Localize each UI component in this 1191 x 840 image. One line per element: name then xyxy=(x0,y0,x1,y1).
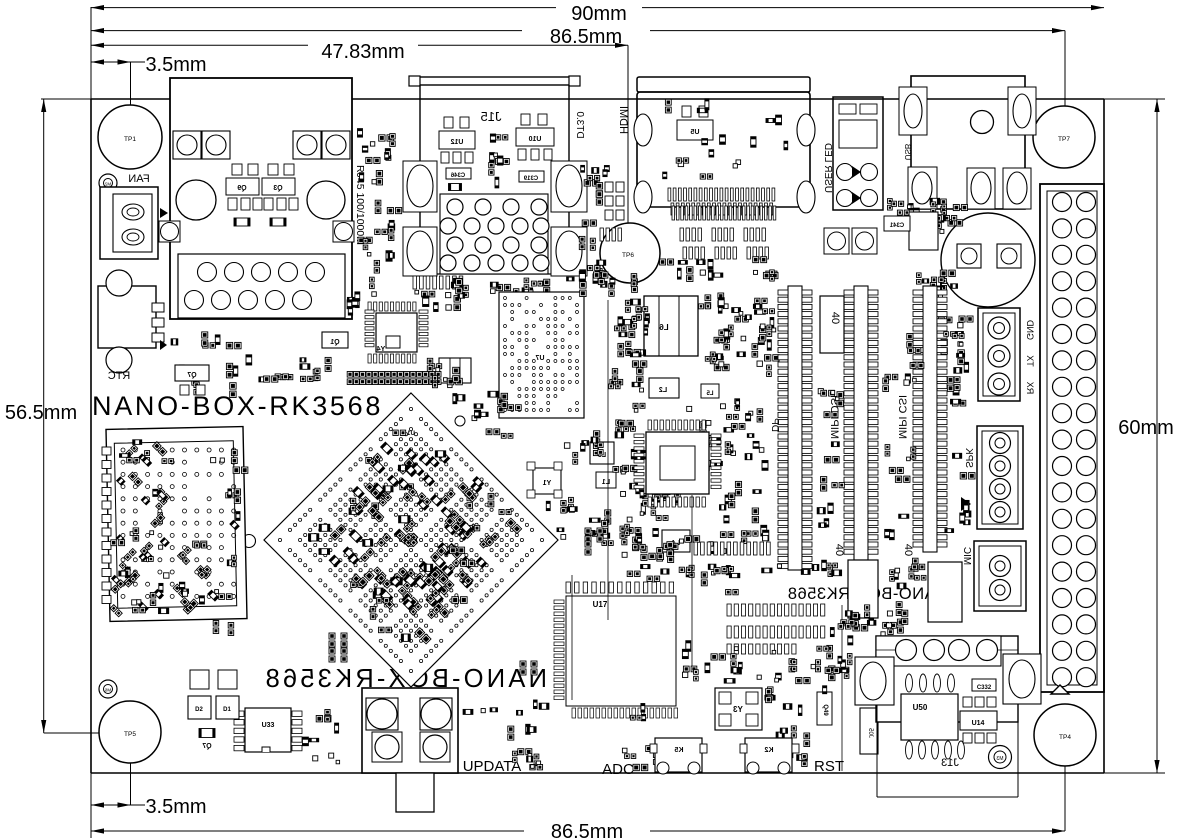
svg-text:C319: C319 xyxy=(523,176,538,182)
svg-text:40: 40 xyxy=(833,544,845,556)
SMD parts below QFN U11 xyxy=(633,536,700,563)
SMD parts below L6 left xyxy=(609,361,647,474)
SMD parts above ADC xyxy=(513,749,543,770)
SMD parts below TP6 xyxy=(567,270,638,297)
SMD parts above U7 left xyxy=(453,391,521,438)
module components left xyxy=(110,472,170,617)
via circle left of BGA xyxy=(243,535,256,548)
SMD parts in HDMI xyxy=(663,99,788,179)
SMD parts left of L4 xyxy=(620,524,658,557)
svg-text:ADC: ADC xyxy=(602,761,634,778)
connector MIPI DSI 40pin xyxy=(778,286,812,570)
inductor L1 xyxy=(596,472,616,488)
J13 pad right xyxy=(1003,654,1041,704)
silkscreen NANO-BOX-RK3568 mirrored small xyxy=(787,585,948,603)
svg-text:SPK: SPK xyxy=(963,448,974,468)
diode D1 xyxy=(216,670,239,719)
SMD parts left of J13 2 xyxy=(823,624,853,694)
SMD parts below capacitor C1 xyxy=(917,270,958,298)
svg-text:K2: K2 xyxy=(764,747,773,754)
module U6 outline xyxy=(106,427,247,622)
J13 oval pads bottom xyxy=(906,741,965,759)
svg-text:RTC: RTC xyxy=(108,370,130,382)
svg-text:USB: USB xyxy=(903,144,912,160)
inductor near Y4 xyxy=(439,358,471,383)
connector RJ45 xyxy=(159,78,354,319)
connector RTC xyxy=(98,270,167,382)
wire K2 down xyxy=(841,605,843,771)
svg-text:C346: C346 xyxy=(450,173,465,179)
pads below module xyxy=(213,621,391,636)
connector UPDATA USB OTG xyxy=(362,688,458,812)
IC U37 xyxy=(928,562,962,622)
dimension 86.5mm top xyxy=(91,26,1065,137)
IC U33 xyxy=(234,708,302,752)
module via grid xyxy=(121,448,236,598)
QFN Y4 wifi xyxy=(365,302,428,363)
svg-text:FAN: FAN xyxy=(128,173,149,185)
SMD parts above U17 xyxy=(546,497,613,545)
transistor Q7 bottom xyxy=(199,729,215,751)
SMD parts left of HDMI xyxy=(579,165,609,287)
IC U10 xyxy=(516,114,554,160)
inductor L5 xyxy=(701,384,719,398)
svg-text:J15: J15 xyxy=(481,109,502,124)
SMD pads cluster right of J15 xyxy=(605,182,624,220)
svg-text:K5: K5 xyxy=(674,747,683,754)
IC U50 xyxy=(901,694,958,740)
dimension 3.5mm bottom xyxy=(91,733,207,838)
SMD parts right of LCD conn xyxy=(944,323,969,406)
QFN U11 xyxy=(634,420,721,507)
board outline xyxy=(91,99,1104,773)
test point TP5 xyxy=(99,701,161,763)
svg-text:C341: C341 xyxy=(889,223,904,229)
SMD parts left of Y4 xyxy=(347,292,360,315)
svg-text:MIC: MIC xyxy=(961,547,972,565)
svg-text:Y3: Y3 xyxy=(733,705,743,714)
module components right xyxy=(226,467,248,530)
dimension 56.5mm left xyxy=(5,99,130,733)
button K2 xyxy=(740,738,799,774)
svg-text:Q9: Q9 xyxy=(237,185,246,192)
svg-text:U12: U12 xyxy=(450,139,463,146)
svg-text:U5: U5 xyxy=(690,129,699,136)
connector HDMI xyxy=(617,77,815,213)
svg-text:U17: U17 xyxy=(593,600,608,609)
svg-text:L5: L5 xyxy=(706,391,714,397)
SMD parts mid column low xyxy=(709,481,769,553)
svg-text:RST: RST xyxy=(814,758,844,775)
svg-text:U1: U1 xyxy=(407,431,415,437)
svg-text:3.5mm: 3.5mm xyxy=(145,54,206,76)
SMD parts right of band xyxy=(427,358,462,387)
RJ45 pin holes xyxy=(185,263,325,310)
connector SPK xyxy=(961,426,1023,529)
SMD parts left of J13 xyxy=(841,611,876,631)
svg-text:Y1: Y1 xyxy=(543,480,552,487)
dimension 90mm xyxy=(91,3,1104,25)
connector debug UART xyxy=(978,308,1020,401)
svg-text:90mm: 90mm xyxy=(571,3,627,25)
transistor Q1 xyxy=(322,332,348,348)
SMD parts mid column xyxy=(687,399,768,471)
wire horizontal xyxy=(607,300,609,620)
dimension 60mm right xyxy=(1104,99,1174,773)
eMMC pad ladder xyxy=(727,604,825,654)
test point TP6 xyxy=(600,223,660,283)
components on BGA xyxy=(309,430,522,644)
resistor arrays row 2 xyxy=(600,228,768,259)
svg-text:C332: C332 xyxy=(977,685,992,691)
transistor Q9 xyxy=(226,164,262,210)
SMD parts between MIPI 2 xyxy=(883,334,924,540)
pad quad right of U17 xyxy=(520,661,537,675)
svg-text:TP1: TP1 xyxy=(124,136,136,143)
svg-text:60mm: 60mm xyxy=(1118,417,1174,439)
SMD parts below U36 xyxy=(865,602,908,642)
svg-text:U33: U33 xyxy=(262,722,275,729)
IC U17 QFP xyxy=(554,582,678,718)
svg-text:86.5mm: 86.5mm xyxy=(550,26,622,48)
test point TP1 xyxy=(98,105,162,169)
SMD parts below HDMI xyxy=(660,257,778,282)
transistor Q7 left xyxy=(175,365,209,395)
svg-text:47.83mm: 47.83mm xyxy=(321,41,404,63)
wire vertical mid xyxy=(691,495,693,672)
pin header holes xyxy=(1053,193,1096,687)
SMD parts left of L6 xyxy=(615,299,650,357)
diode D2 xyxy=(188,670,211,719)
capacitor C319 xyxy=(519,171,544,182)
screw hole M3 xyxy=(989,746,1012,769)
dimension 3.5mm top xyxy=(91,54,207,137)
SMD parts below RTC xyxy=(171,332,252,398)
SMD parts right of U17 xyxy=(682,641,698,681)
SMD parts below J15 xyxy=(490,278,549,302)
screw hole M2 xyxy=(99,174,117,192)
SMD parts left mid xyxy=(564,431,603,464)
via circle near BGA top right xyxy=(455,416,465,426)
J15 pin hole grid xyxy=(440,194,549,274)
svg-text:TP7: TP7 xyxy=(1058,136,1070,143)
button K5 xyxy=(650,738,707,774)
connector body J8 xyxy=(820,296,844,353)
svg-text:RX: RX xyxy=(1025,382,1035,395)
svg-text:U10: U10 xyxy=(528,136,541,143)
connector FAN xyxy=(100,173,168,259)
svg-text:HDMI: HDMI xyxy=(617,106,629,134)
svg-text:Y4: Y4 xyxy=(377,346,386,353)
svg-text:U50: U50 xyxy=(913,703,928,712)
svg-text:D2: D2 xyxy=(195,707,203,713)
HDMI pin row xyxy=(668,188,775,215)
module components bottom xyxy=(173,541,236,614)
svg-text:L6: L6 xyxy=(659,323,669,332)
inductor L2 xyxy=(649,378,679,398)
pad comb below J15 xyxy=(413,276,463,289)
pad clusters below diamond xyxy=(329,528,603,662)
SMD parts above capacitor C1 xyxy=(884,198,967,240)
SMD parts right of U33 xyxy=(302,710,339,764)
screw hole M6 xyxy=(99,680,117,698)
pin 1 marker triangle xyxy=(1051,685,1069,694)
capacitor C341 xyxy=(884,212,938,250)
SMD parts near ADC xyxy=(622,704,659,771)
SMD parts left of UART header xyxy=(939,316,973,395)
capacitor C332 xyxy=(972,679,996,691)
svg-text:40: 40 xyxy=(902,544,914,556)
IC U14 xyxy=(960,711,997,730)
transistor Q49 xyxy=(817,692,832,725)
J13 pad left xyxy=(855,657,894,705)
svg-text:M6: M6 xyxy=(104,688,111,693)
svg-text:GND: GND xyxy=(1025,320,1035,341)
capacitor C1 electrolytic xyxy=(941,213,1035,307)
IC U36 xyxy=(848,560,878,618)
svg-text:L2: L2 xyxy=(659,387,667,394)
pad comb right of L4 xyxy=(694,542,770,555)
svg-text:DP: DP xyxy=(769,418,780,432)
connector MIC xyxy=(961,541,1026,611)
SMD parts above Y4 xyxy=(415,278,468,311)
svg-text:Q7: Q7 xyxy=(202,743,211,750)
crystal Y1 xyxy=(527,462,562,498)
connector USB V2.0 xyxy=(899,76,1036,209)
silkscreen NANO-BOX-RK3568 mirrored bottom xyxy=(262,665,547,693)
svg-text:3.5mm: 3.5mm xyxy=(145,796,206,818)
svg-text:TP4: TP4 xyxy=(1059,734,1071,741)
svg-text:MIPI CSI: MIPI CSI xyxy=(896,395,908,439)
svg-text:L1: L1 xyxy=(602,479,610,486)
SMD parts right of UPDATA xyxy=(463,700,549,740)
svg-text:J05: J05 xyxy=(867,728,873,738)
pad squares below USER LED xyxy=(824,228,877,254)
svg-text:NANO-BOX-RK3568: NANO-BOX-RK3568 xyxy=(92,391,383,421)
module components top xyxy=(120,440,238,467)
SMD parts J15 center xyxy=(489,134,510,188)
test point TP4 xyxy=(1034,704,1096,766)
J15 mounting ovals xyxy=(403,161,587,276)
test point TP7 xyxy=(1033,106,1095,168)
SMD parts above QFN U11 xyxy=(621,483,689,522)
IC U38 xyxy=(936,580,958,594)
svg-text:Q3: Q3 xyxy=(273,185,282,192)
svg-text:J13: J13 xyxy=(941,757,959,769)
SMD parts right of U36 xyxy=(890,558,926,589)
connector J20 xyxy=(860,708,878,754)
inductor L4 xyxy=(662,530,690,552)
svg-text:Q7: Q7 xyxy=(187,372,196,379)
connector 2x20 pin header xyxy=(1040,184,1104,692)
connector MIPI CSI 40pin xyxy=(844,286,878,560)
SMD parts near eMMC xyxy=(701,564,740,595)
resistors below Q9 Q3 xyxy=(234,218,286,226)
svg-text:U7: U7 xyxy=(535,355,544,362)
svg-text:USER LED: USER LED xyxy=(822,143,833,193)
dimension 47.83mm xyxy=(91,41,628,253)
svg-text:TP5: TP5 xyxy=(124,731,136,738)
SMD parts right of L6 xyxy=(699,293,780,376)
svg-text:86.5mm: 86.5mm xyxy=(551,821,623,840)
svg-text:D1: D1 xyxy=(223,707,231,713)
SMD parts left band xyxy=(259,357,331,382)
IC U5 xyxy=(677,106,713,140)
svg-text:40: 40 xyxy=(829,312,841,324)
svg-text:Q1: Q1 xyxy=(330,339,339,346)
small squares right of U50 xyxy=(963,697,996,743)
SMD band above silkscreen text xyxy=(347,372,441,385)
wire from U17 xyxy=(571,575,573,700)
BGA ball grid xyxy=(278,407,543,672)
SMD parts right of LCD conn 2 xyxy=(945,453,975,532)
IC U12 xyxy=(439,117,475,163)
inductor L6 xyxy=(644,296,698,356)
capacitor C346 xyxy=(446,168,471,191)
svg-text:DT3.0: DT3.0 xyxy=(574,111,585,139)
svg-text:U14: U14 xyxy=(972,720,985,727)
transistor Q3 xyxy=(262,164,298,210)
SMD parts around K2 xyxy=(765,687,810,767)
IC U7 with via array xyxy=(499,292,584,418)
svg-text:M3: M3 xyxy=(996,756,1003,762)
connector USER LED xyxy=(822,97,883,210)
SMD parts above eMMC text xyxy=(762,560,842,576)
svg-text:Q49: Q49 xyxy=(822,704,828,716)
SMD parts above Y3 xyxy=(705,645,849,683)
connector J13 microSD xyxy=(876,636,1018,797)
dimension 86.5mm bottom xyxy=(91,735,1065,840)
dimension extension line left xyxy=(90,7,92,99)
connector J15 xyxy=(409,76,580,274)
svg-text:56.5mm: 56.5mm xyxy=(5,402,77,424)
svg-text:TP6: TP6 xyxy=(622,252,634,259)
module edge pads xyxy=(102,447,111,604)
svg-text:TX: TX xyxy=(1025,355,1035,367)
svg-text:M2: M2 xyxy=(104,182,111,187)
SMD parts above U17 right xyxy=(627,565,694,582)
J13 oval pads top xyxy=(906,674,955,692)
connector LCD 40pin xyxy=(913,286,947,552)
resistor array row below HDMI xyxy=(672,206,776,220)
crystal Y3 xyxy=(715,688,762,730)
SMD parts between MIPI xyxy=(817,389,844,528)
SMD parts between RJ45 and J15 xyxy=(358,129,402,297)
inductor L3 xyxy=(590,442,614,464)
BGA U1 RK3568 outline xyxy=(264,393,558,687)
